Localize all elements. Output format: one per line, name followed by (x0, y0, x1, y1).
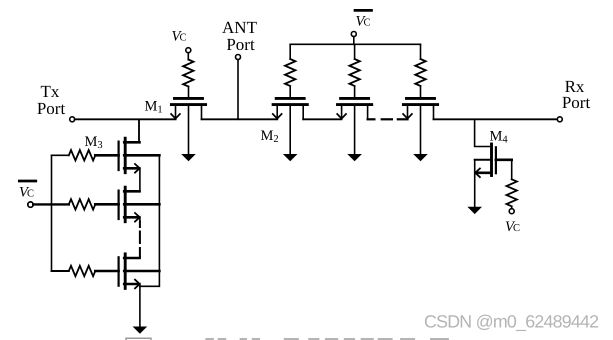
transistor M3c (95, 254, 159, 289)
wire M3c source down (139, 284, 141, 327)
wire M4 drain tap (475, 119, 492, 146)
supply VC-bar terminal (M3 gates) (19, 180, 36, 183)
svg-text:Port: Port (562, 93, 591, 112)
transistor M3b (95, 187, 159, 222)
wire M2c to Rx (434, 118, 558, 120)
wire M3a drain up (138, 119, 140, 142)
transistor M4 (475, 144, 512, 177)
resistor R2b (349, 59, 359, 86)
svg-text:CSDN @m0_62489442: CSDN @m0_62489442 (424, 311, 598, 331)
wire M2a body (289, 106, 291, 155)
transistor M1 (171, 87, 206, 120)
ground (M3 stack) (133, 327, 148, 334)
svg-text:C: C (180, 33, 187, 44)
transistor M2a (273, 87, 308, 120)
wire VC-bar to R3b (33, 203, 69, 205)
resistor R1 (M1 gate) (183, 60, 193, 87)
wire M3b source to M3c drain (dashed) (139, 217, 141, 221)
svg-text:M3: M3 (85, 134, 103, 151)
wire M2c stub (398, 118, 408, 120)
wire M3 gate rail (left) (51, 155, 53, 271)
resistor R2a (285, 59, 295, 86)
wire M3 body rail (right) (140, 155, 160, 286)
ground (M2b body) (347, 154, 362, 161)
wire dash segment (382, 118, 392, 120)
wire M3a source to M3b drain (139, 168, 141, 191)
wire M2b body (354, 106, 356, 155)
wire M2c body (420, 106, 422, 155)
resistor R3b (69, 199, 96, 209)
svg-text:C: C (513, 223, 520, 234)
supply VC terminal (M4 gate) (509, 209, 514, 214)
svg-text:C: C (364, 17, 371, 28)
caption fragment (clipped character tops) (126, 338, 449, 340)
ground (M2a body) (283, 154, 298, 161)
wire M4 gate to resistor (511, 160, 513, 180)
transistor M2b (337, 87, 372, 120)
Rx port terminal (557, 117, 562, 122)
ground (M2c body) (413, 154, 428, 161)
node M3 tap (138, 119, 140, 142)
resistor R4 (507, 179, 517, 206)
wire M2 gate rail (290, 43, 420, 45)
transistor M2c (403, 87, 438, 120)
wire M2a to M2b (303, 118, 341, 120)
transistor M3a (95, 138, 159, 173)
wire ANT stem (237, 60, 239, 120)
Tx port terminal (70, 117, 75, 122)
resistor R3c (69, 266, 96, 276)
wire M4 source/body down (474, 160, 476, 207)
supply VC-bar terminal (M2 gates) (355, 9, 372, 12)
resistor R2c (415, 59, 425, 86)
resistor R3a (69, 150, 96, 160)
wire M1 to M2 (ANT node) (202, 118, 278, 120)
ground (M1 body) (181, 154, 196, 161)
ground (M4) (467, 207, 482, 214)
wire M1 body (188, 106, 190, 155)
ANT port terminal (236, 55, 241, 60)
svg-text:M2: M2 (261, 128, 279, 145)
svg-text:C: C (27, 189, 34, 200)
svg-text:M1: M1 (145, 99, 163, 116)
wire Tx to M1 (75, 118, 176, 120)
wire M2b stub (368, 118, 375, 120)
svg-text:Port: Port (37, 99, 66, 118)
svg-text:Port: Port (226, 35, 255, 54)
